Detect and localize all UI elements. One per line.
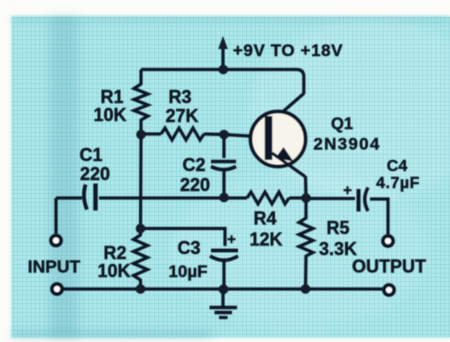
svg-text:R2: R2 [103, 243, 126, 263]
svg-text:10µF: 10µF [168, 262, 207, 281]
svg-text:12K: 12K [249, 230, 282, 250]
svg-text:R5: R5 [326, 218, 349, 238]
svg-text:10K: 10K [93, 105, 126, 125]
svg-text:C4: C4 [387, 158, 408, 175]
svg-text:220: 220 [180, 175, 210, 195]
svg-text:R1: R1 [100, 87, 123, 107]
svg-text:2N3904: 2N3904 [313, 135, 380, 154]
svg-text:C3: C3 [177, 238, 200, 258]
svg-text:OUTPUT: OUTPUT [352, 257, 426, 277]
svg-text:R3: R3 [168, 87, 191, 107]
svg-text:+9V TO +18V: +9V TO +18V [233, 41, 343, 60]
svg-text:4.7µF: 4.7µF [376, 175, 420, 192]
svg-text:Q1: Q1 [331, 115, 353, 133]
svg-text:C2: C2 [182, 155, 205, 175]
svg-text:+: + [227, 231, 236, 248]
svg-text:220: 220 [80, 164, 110, 184]
svg-text:R4: R4 [253, 209, 276, 229]
svg-text:INPUT: INPUT [28, 257, 81, 277]
svg-text:+: + [343, 182, 352, 199]
svg-text:10K: 10K [97, 261, 130, 281]
svg-text:27K: 27K [165, 106, 198, 126]
svg-text:C1: C1 [79, 145, 102, 165]
